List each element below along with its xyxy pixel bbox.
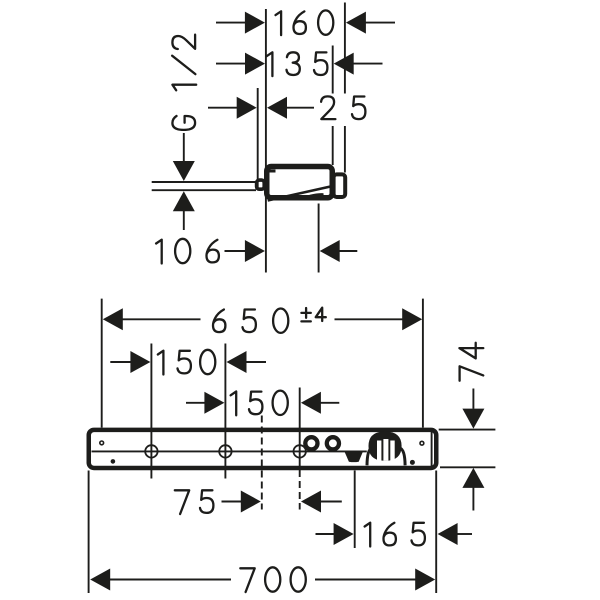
label 150 second	[231, 391, 288, 416]
thermostat dial	[369, 432, 402, 461]
wire: dim 150b right tail	[320, 402, 339, 404]
dial grip stripe middle	[383, 439, 388, 461]
wire: dim 700 right span line	[315, 579, 416, 581]
control ring left	[305, 437, 317, 449]
label 700	[240, 567, 306, 592]
wire: supply pipe top line	[152, 181, 256, 183]
wire: extension line V2 axis x=265.9	[265, 9, 267, 273]
left inlet tab	[257, 180, 265, 189]
arrow dim G1/2 up	[173, 191, 195, 211]
arrow dim 160 right	[346, 12, 366, 34]
dial grip stripe right	[390, 441, 394, 461]
label 160	[276, 10, 334, 35]
wire: dim 135 left tail	[216, 63, 246, 65]
label 150 first	[158, 350, 216, 375]
label 165	[365, 523, 425, 547]
wire: extension line 650 left x=101.7	[101, 299, 103, 428]
bar mid line	[92, 450, 367, 452]
arrow dim 25 right	[267, 97, 287, 119]
right outlet tab	[334, 174, 346, 197]
valve body diagonal line	[268, 187, 331, 201]
arrow dim 106 right	[320, 240, 340, 262]
wire: hole axis line x=225.4	[224, 344, 226, 479]
dial recess arc right	[400, 448, 405, 465]
arrow dim 150b right	[301, 392, 321, 414]
wire: dim 74 lower tail	[472, 487, 474, 511]
label 135	[267, 52, 328, 76]
wire: extension line V1 wall plane x=257.7	[257, 88, 259, 190]
crosshair hole 1	[145, 445, 157, 457]
select lever	[345, 452, 363, 462]
label 74 rotated	[459, 343, 483, 381]
wire: extension line V3 x=332.7 lower	[332, 126, 334, 165]
wire: dim 75 left tail	[222, 501, 242, 503]
wire: dim 75 right tail	[320, 501, 342, 503]
wire: dim 165 right tail	[457, 533, 472, 535]
arrow dim 150a left	[130, 351, 150, 373]
crosshair hole 2	[219, 445, 231, 457]
wire: dim 74 upper tail	[472, 389, 474, 409]
wire: dim G1/2 lower tail	[183, 210, 185, 230]
arrow dim 150a right	[227, 351, 247, 373]
bar end cap line	[431, 432, 433, 466]
shower bar front view	[89, 430, 437, 468]
arrow dim 106 left	[245, 240, 265, 262]
arrow dim 160 left	[245, 12, 265, 34]
arrow dim G1/2 down	[173, 161, 195, 181]
label 25	[321, 96, 365, 119]
wire: extension line V4 x=344.9 lower	[344, 126, 346, 173]
wire: dim G1/2 upper tail	[183, 133, 185, 162]
wire: dim 650 right span line	[335, 318, 404, 320]
arrow dim 150b left	[204, 392, 224, 414]
valve body side view	[257, 166, 346, 200]
arrow dim 74 up	[462, 468, 484, 488]
arrow dim 25 left	[237, 97, 257, 119]
dot right	[410, 460, 415, 465]
wire: dim 160 right tail	[365, 22, 395, 24]
arrow dim 700 right	[415, 569, 435, 591]
wire: dim 74 extension bottom	[440, 466, 495, 468]
arrow dim 165 right	[438, 523, 458, 545]
wire: dim 150b left tail	[186, 402, 205, 404]
control ring right	[327, 437, 339, 449]
wire: hole axis line x=151.4	[150, 344, 152, 479]
wire: dim 106 left tail	[225, 250, 247, 252]
wire: dashed axis x=299.7 below bar	[299, 470, 301, 510]
wire: extension line 165 left x=354.7	[354, 471, 356, 549]
arrow dim 650 right	[402, 308, 422, 330]
crosshair hole 3	[294, 445, 306, 457]
screw hole ring left	[100, 441, 104, 445]
valve body inner ledge	[269, 170, 276, 173]
wire: dim 25 left tail	[208, 107, 238, 109]
dial recess arc left	[367, 448, 372, 465]
wire: dim 74 extension top	[439, 429, 496, 431]
arrow dim 650 left	[103, 308, 123, 330]
dial grip stripe left	[377, 441, 381, 461]
wire: dashed centerline x=261.8	[261, 416, 263, 510]
wire: extension line 700 left x=88.6	[88, 471, 90, 594]
arrow dim 165 left	[334, 523, 354, 545]
arrow dim 75 right	[301, 491, 321, 513]
wire: extension line V5 x=318.6 below body	[318, 204, 320, 273]
wire: dim 106 right tail	[339, 250, 358, 252]
label 75	[175, 490, 214, 514]
wire: dim 150a right tail	[246, 361, 267, 363]
arrow dim 135 right	[334, 53, 354, 75]
wire: dim 650 left span line	[122, 318, 201, 320]
label 650 plus-minus 4	[213, 308, 326, 333]
wire: supply pipe bottom line	[152, 189, 256, 191]
label G1/2 rotated	[172, 35, 196, 130]
arrow dim 74 down	[462, 409, 484, 429]
wire: dim 160 left tail	[216, 22, 246, 24]
wire: dim 25 right tail	[286, 107, 314, 109]
wire: extension line 700 right x=436.2	[435, 471, 437, 594]
wire: extension line V3 x=332.7 upper	[332, 46, 334, 94]
arrow dim 75 left	[241, 491, 261, 513]
wire: hole axis line x=299.7	[299, 388, 301, 471]
wire: dim 135 right tail	[353, 63, 383, 65]
dot left	[111, 459, 116, 464]
wire: dim 700 left span line	[109, 579, 231, 581]
arrow dim 135 left	[245, 53, 265, 75]
wire: dim 150a left tail	[110, 361, 131, 363]
valve body handle blob	[304, 193, 324, 200]
wire: extension line V4 x=344.9 upper	[344, 3, 346, 94]
small ring right	[420, 441, 424, 445]
wire: extension line 650 right x=422.9	[422, 299, 424, 428]
wire: dim 165 left tail	[316, 533, 335, 535]
arrow dim 700 left	[90, 569, 110, 591]
label 106	[156, 239, 219, 264]
